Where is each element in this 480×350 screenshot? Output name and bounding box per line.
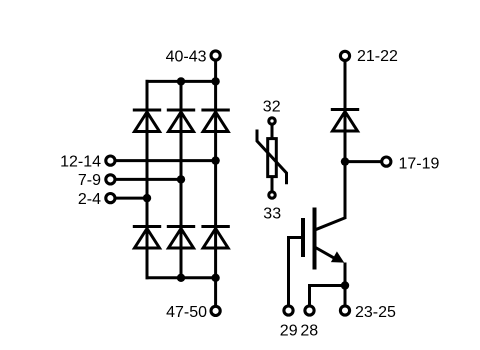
junction top bus / middle leg	[177, 77, 185, 85]
transistor Q1 emitter diagonal	[316, 248, 338, 260]
svg-text:21-22: 21-22	[357, 48, 398, 65]
wire: gate down to terminal 29	[287, 236, 290, 308]
terminal 7-9	[106, 175, 115, 184]
junction bottom bus / middle leg	[177, 274, 185, 282]
terminal 28	[305, 306, 314, 315]
wire: gate lead	[287, 236, 301, 239]
wire: thermistor bottom stub	[271, 177, 274, 193]
svg-text:12-14: 12-14	[60, 153, 101, 170]
terminal 21-22	[340, 51, 349, 60]
thermistor R1 diagonal stroke	[257, 130, 287, 185]
svg-text:40-43: 40-43	[166, 48, 207, 65]
diode D5 (bottom row, middle leg)	[167, 227, 195, 249]
transistor Q1 gate bar	[301, 218, 305, 257]
junction 12-14 / right leg	[211, 156, 219, 164]
svg-text:28: 28	[300, 323, 318, 340]
terminal 40-43	[211, 51, 220, 60]
wire: AC input 12-14	[114, 159, 216, 162]
transistor Q1 body bar	[313, 208, 317, 270]
wire: right bridge leg from terminal 40-43 down to terminal 47-50	[214, 57, 217, 308]
terminal 33	[269, 192, 275, 198]
thermistor R1 body	[268, 139, 277, 177]
diode D2 (top row, middle leg)	[167, 110, 195, 132]
svg-text:47-50: 47-50	[166, 304, 207, 321]
terminal 2-4	[106, 194, 115, 203]
terminal 17-19	[382, 157, 391, 166]
svg-text:32: 32	[263, 99, 281, 116]
junction 2-4 / left leg	[143, 194, 151, 202]
wire: thermistor top stub	[271, 123, 274, 139]
junction bottom bus / right leg	[211, 274, 219, 282]
svg-text:2-4: 2-4	[78, 191, 101, 208]
svg-text:33: 33	[263, 205, 281, 222]
wire: left bridge leg	[146, 80, 149, 279]
diode D3 (top row, right leg)	[201, 110, 229, 132]
wire: bottom DC- bus	[146, 276, 218, 279]
svg-text:7-9: 7-9	[78, 172, 101, 189]
transistor Q1 collector diagonal	[316, 218, 346, 230]
wire: emitter down to junction	[344, 263, 347, 286]
wire: emitter-aux horizontal	[308, 284, 345, 287]
wire: 17-19 tap	[345, 160, 382, 163]
svg-text:29: 29	[280, 323, 298, 340]
diode D6 (bottom row, right leg)	[201, 227, 229, 249]
diode D4 (bottom row, left leg)	[133, 227, 161, 249]
terminal 47-50	[211, 306, 220, 315]
terminal 29	[284, 306, 293, 315]
wire: down to terminal 23-25	[344, 286, 347, 309]
svg-text:23-25: 23-25	[355, 304, 396, 321]
terminal 12-14	[106, 156, 115, 165]
wire: AC input 7-9	[114, 178, 181, 181]
wire: down to terminal 28	[308, 284, 311, 308]
terminal 32	[269, 118, 275, 124]
junction emitter / aux	[341, 281, 349, 289]
junction top bus / right leg	[211, 77, 219, 85]
wire: collector line from terminal 21-22 down	[344, 57, 347, 219]
transistor Q1 emitter arrowhead	[331, 251, 344, 262]
diode D1 (top row, left leg)	[133, 110, 161, 132]
junction collector / 17-19	[341, 157, 349, 165]
svg-text:17-19: 17-19	[399, 155, 440, 172]
terminal 23-25	[340, 306, 349, 315]
wire: middle bridge leg	[180, 80, 183, 279]
junction 7-9 / middle leg	[177, 175, 185, 183]
diode D7 (freewheel, right column)	[331, 110, 359, 132]
wire: top DC+ bus	[146, 80, 218, 83]
wire: AC input 2-4	[114, 197, 147, 200]
